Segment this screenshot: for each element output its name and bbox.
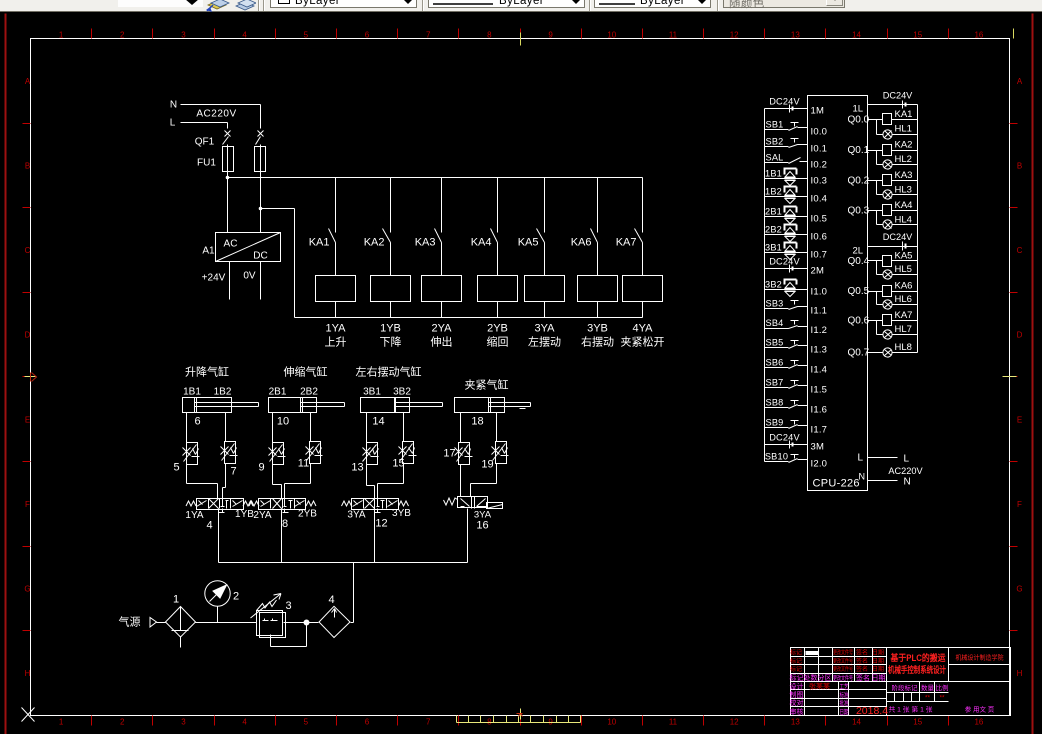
svg-text:1: 1 [59,718,64,727]
svg-text:1B2: 1B2 [765,187,782,197]
svg-text:KA2: KA2 [364,237,385,249]
svg-text:15: 15 [913,718,922,727]
svg-text:上升: 上升 [325,336,347,349]
svg-text:KA1: KA1 [895,109,913,120]
svg-text:+24V: +24V [202,273,226,284]
svg-text:KA1: KA1 [309,237,330,249]
svg-text:机械手控制系统设计: 机械手控制系统设计 [888,664,946,675]
svg-text:KA6: KA6 [895,281,913,292]
svg-text:DC: DC [253,251,267,262]
svg-text:I0.2: I0.2 [811,160,828,171]
svg-text:2L: 2L [853,246,864,257]
svg-text:D: D [1017,331,1023,340]
svg-text:I0.1: I0.1 [811,144,828,155]
svg-text:10: 10 [607,31,616,40]
svg-text:0V: 0V [243,271,256,282]
svg-text:A1: A1 [202,246,215,257]
svg-text:4YA: 4YA [633,323,654,335]
svg-text:12: 12 [375,518,387,530]
svg-text:标记: 标记 [790,657,802,665]
svg-text:4: 4 [206,520,212,532]
svg-text:I0.6: I0.6 [811,232,828,243]
svg-text:标准: 标准 [840,690,849,699]
svg-text:Q0.1: Q0.1 [848,145,870,156]
svg-text:6: 6 [194,416,200,428]
svg-text:夹紧松开: 夹紧松开 [621,335,665,349]
svg-text:签名: 签名 [856,665,868,673]
svg-text:2YA: 2YA [432,323,453,335]
svg-text:16: 16 [974,31,983,40]
svg-text:AC220V: AC220V [196,109,236,120]
svg-text:3YB: 3YB [392,508,411,519]
svg-text:SB7: SB7 [766,378,784,388]
svg-text:18: 18 [471,416,483,428]
svg-text:夹紧气缸: 夹紧气缸 [465,378,509,392]
svg-text:KA5: KA5 [518,237,539,249]
svg-text:共 1 张 第 1 张: 共 1 张 第 1 张 [889,704,934,713]
svg-text:SAL: SAL [766,153,784,163]
svg-text:6: 6 [365,31,370,40]
svg-text:1YB: 1YB [235,509,254,520]
svg-text:基于PLC的搬运: 基于PLC的搬运 [890,652,947,663]
svg-text:N: N [904,477,911,488]
svg-text:I0.0: I0.0 [811,127,828,138]
svg-text:KA3: KA3 [415,237,436,249]
svg-text:I1.6: I1.6 [811,405,828,416]
svg-text:9: 9 [258,462,264,474]
svg-text:标记: 标记 [790,649,802,657]
svg-text:1YA: 1YA [185,510,203,521]
svg-text:日期: 日期 [872,674,886,682]
svg-text:2: 2 [120,31,125,40]
svg-text:签名: 签名 [856,649,868,657]
svg-text:13: 13 [351,462,363,474]
svg-text:2YB: 2YB [487,323,508,335]
svg-text:QF1: QF1 [195,137,215,148]
svg-text:11: 11 [669,31,678,40]
svg-text:1YA: 1YA [326,323,347,335]
svg-text:**: ** [925,695,931,702]
svg-text:7: 7 [426,718,431,727]
svg-text:机械设计制造学院: 机械设计制造学院 [956,653,1004,662]
svg-text:KA6: KA6 [571,237,592,249]
svg-text:3: 3 [285,600,291,612]
svg-text:DC24V: DC24V [883,232,913,242]
svg-text:Q0.5: Q0.5 [848,286,870,297]
svg-text:14: 14 [372,416,384,428]
svg-text:SB8: SB8 [766,398,784,408]
svg-text:N: N [859,472,866,482]
svg-text:14: 14 [852,31,861,40]
svg-text:4: 4 [242,718,247,727]
svg-text:2B1: 2B1 [269,387,287,398]
svg-text:I0.7: I0.7 [811,250,828,261]
svg-text:Q0.2: Q0.2 [848,176,870,187]
svg-text:HL7: HL7 [895,324,912,335]
svg-text:3YB: 3YB [587,323,608,335]
svg-text:标记: 标记 [790,673,804,682]
svg-text:2B1: 2B1 [765,207,782,217]
svg-text:Q0.3: Q0.3 [848,206,870,217]
svg-text:**: ** [939,695,945,702]
svg-text:SB2: SB2 [766,137,784,147]
svg-text:HL8: HL8 [895,342,912,353]
svg-text:2M: 2M [811,266,825,277]
svg-text:L: L [904,454,910,465]
svg-text:L: L [858,453,864,464]
svg-text:SB1: SB1 [766,120,784,130]
svg-text:Q0.0: Q0.0 [848,115,870,126]
svg-text:日期: 日期 [840,708,849,716]
svg-text:KA3: KA3 [895,170,913,181]
svg-text:8: 8 [282,518,288,530]
svg-text:2B2: 2B2 [300,387,318,398]
svg-text:缩回: 缩回 [487,336,509,349]
svg-text:KA5: KA5 [895,251,913,262]
svg-text:3YA: 3YA [347,510,365,521]
svg-text:16: 16 [974,718,983,727]
svg-text:I1.7: I1.7 [811,425,828,436]
svg-text:HL4: HL4 [895,215,912,226]
svg-text:G: G [24,585,30,594]
svg-text:HL1: HL1 [895,124,912,135]
svg-text:KA4: KA4 [471,237,492,249]
svg-text:N: N [170,100,177,111]
svg-text:FU1: FU1 [197,158,216,169]
svg-text:SB9: SB9 [766,418,784,428]
svg-text:1L: 1L [853,104,864,115]
svg-text:日期: 日期 [872,665,884,673]
svg-text:CPU-226: CPU-226 [813,478,860,490]
svg-text:13: 13 [791,718,800,727]
svg-text:标记: 标记 [790,665,802,673]
svg-text:C: C [25,246,31,255]
svg-text:1B2: 1B2 [214,387,232,398]
svg-text:伸出: 伸出 [431,335,453,349]
svg-text:I0.3: I0.3 [811,176,828,187]
svg-text:签名: 签名 [856,657,868,665]
svg-text:9: 9 [548,31,553,40]
svg-text:3B1: 3B1 [765,243,782,253]
svg-text:左右摆动气缸: 左右摆动气缸 [356,365,422,379]
svg-text:I2.0: I2.0 [811,459,828,470]
svg-text:5: 5 [173,462,179,474]
svg-text:DC24V: DC24V [769,97,800,107]
svg-text:2: 2 [120,718,125,727]
svg-text:11: 11 [669,718,678,727]
svg-text:1M: 1M [811,106,825,117]
svg-text:左摆动: 左摆动 [528,335,561,349]
svg-text:工艺: 工艺 [840,682,849,690]
svg-text:更改文件号: 更改文件号 [833,665,853,673]
svg-text:分区: 分区 [818,673,832,682]
svg-text:日期: 日期 [872,649,884,657]
svg-text:17: 17 [443,448,455,460]
svg-text:F: F [25,500,30,509]
svg-text:1B1: 1B1 [183,387,201,398]
svg-text:11: 11 [298,458,309,470]
svg-text:5: 5 [304,718,309,727]
svg-text:制图: 制图 [790,690,804,699]
svg-text:1B1: 1B1 [765,169,782,179]
svg-text:I1.2: I1.2 [811,325,828,336]
svg-text:1: 1 [59,31,64,40]
svg-text:2018.4: 2018.4 [856,705,888,717]
svg-text:G: G [1016,585,1022,594]
svg-text:DC24V: DC24V [769,433,800,443]
svg-text:12: 12 [730,31,739,40]
svg-text:气源: 气源 [119,615,141,629]
svg-text:参 用文 页: 参 用文 页 [965,704,995,713]
svg-text:3B2: 3B2 [765,280,782,290]
svg-text:校对: 校对 [790,698,804,707]
svg-text:4: 4 [242,31,247,40]
svg-text:更改文件号: 更改文件号 [833,673,853,682]
svg-text:E: E [25,415,30,424]
svg-text:伸缩气缸: 伸缩气缸 [284,365,328,379]
svg-text:A: A [25,77,31,86]
svg-text:升降气缸: 升降气缸 [185,365,229,379]
svg-text:7: 7 [426,31,431,40]
svg-text:E: E [1017,415,1022,424]
svg-text:AC220V: AC220V [888,466,923,476]
svg-text:HL3: HL3 [895,185,912,196]
svg-text:2: 2 [233,591,239,603]
svg-text:HL5: HL5 [895,264,912,275]
svg-text:3: 3 [181,718,186,727]
svg-text:10: 10 [277,416,289,428]
svg-text:Q0.4: Q0.4 [848,256,870,267]
svg-text:14: 14 [852,718,861,727]
svg-text:右摆动: 右摆动 [581,335,614,349]
svg-text:16: 16 [476,520,488,532]
svg-text:5: 5 [304,31,309,40]
svg-text:8: 8 [487,31,492,40]
svg-text:3B1: 3B1 [363,387,381,398]
svg-text:19: 19 [481,459,493,471]
svg-text:DC24V: DC24V [769,257,800,267]
svg-text:F: F [1017,500,1022,509]
svg-text:I1.4: I1.4 [811,365,828,376]
svg-text:Q0.6: Q0.6 [848,316,870,327]
svg-text:I1.0: I1.0 [811,287,828,298]
svg-text:L: L [170,118,176,129]
svg-text:SB5: SB5 [766,338,784,348]
svg-text:15: 15 [913,31,922,40]
svg-text:下降: 下降 [380,335,402,349]
svg-text:3M: 3M [811,442,825,453]
svg-text:I1.5: I1.5 [811,385,828,396]
svg-text:HL6: HL6 [895,294,912,305]
svg-text:批准: 批准 [840,698,849,707]
svg-text:H: H [25,669,31,678]
svg-text:I1.1: I1.1 [811,306,828,317]
svg-text:B: B [25,161,30,170]
svg-text:2B2: 2B2 [765,225,782,235]
svg-text:I1.3: I1.3 [811,345,828,356]
svg-text:3B2: 3B2 [393,387,411,398]
svg-text:D: D [25,331,31,340]
svg-text:1YB: 1YB [380,323,401,335]
svg-text:KA7: KA7 [895,310,913,321]
svg-text:2YB: 2YB [298,509,317,520]
svg-text:KA7: KA7 [616,237,637,249]
svg-text:7: 7 [230,466,236,478]
svg-text:签名: 签名 [856,673,870,682]
svg-text:Q0.7: Q0.7 [848,348,870,359]
svg-text:阶段标记: 阶段标记 [892,683,919,692]
svg-text:6: 6 [365,718,370,727]
svg-text:HL2: HL2 [895,154,912,165]
svg-text:日期: 日期 [872,657,884,665]
svg-text:张某某: 张某某 [809,681,830,690]
svg-text:SB4: SB4 [766,318,784,328]
svg-text:比例: 比例 [936,683,949,692]
svg-text:更改文件号: 更改文件号 [833,649,853,657]
svg-text:12: 12 [730,718,739,727]
svg-text:H: H [1017,669,1023,678]
svg-text:C: C [1017,246,1023,255]
svg-text:数量: 数量 [921,683,935,692]
svg-text:KA4: KA4 [895,200,913,211]
svg-text:2YA: 2YA [253,510,271,521]
svg-text:设计: 设计 [790,681,804,690]
svg-text:SB10: SB10 [765,452,788,462]
svg-text:1: 1 [173,594,179,606]
svg-text:更改文件号: 更改文件号 [833,657,853,665]
svg-text:4: 4 [328,594,334,606]
svg-text:审核: 审核 [790,707,804,716]
svg-text:A: A [1017,77,1023,86]
svg-text:SB6: SB6 [766,358,784,368]
svg-text:10: 10 [607,718,616,727]
svg-text:KA2: KA2 [895,140,913,151]
svg-text:13: 13 [791,31,800,40]
svg-text:DC24V: DC24V [883,91,913,101]
svg-text:I0.5: I0.5 [811,214,828,225]
svg-text:B: B [1017,161,1022,170]
svg-text:3: 3 [181,31,186,40]
svg-text:3YA: 3YA [535,323,556,335]
svg-text:I0.4: I0.4 [811,194,828,205]
svg-text:SB3: SB3 [766,299,784,309]
svg-text:15: 15 [392,458,404,470]
svg-text:AC: AC [224,239,238,250]
svg-text:处数: 处数 [804,673,818,682]
